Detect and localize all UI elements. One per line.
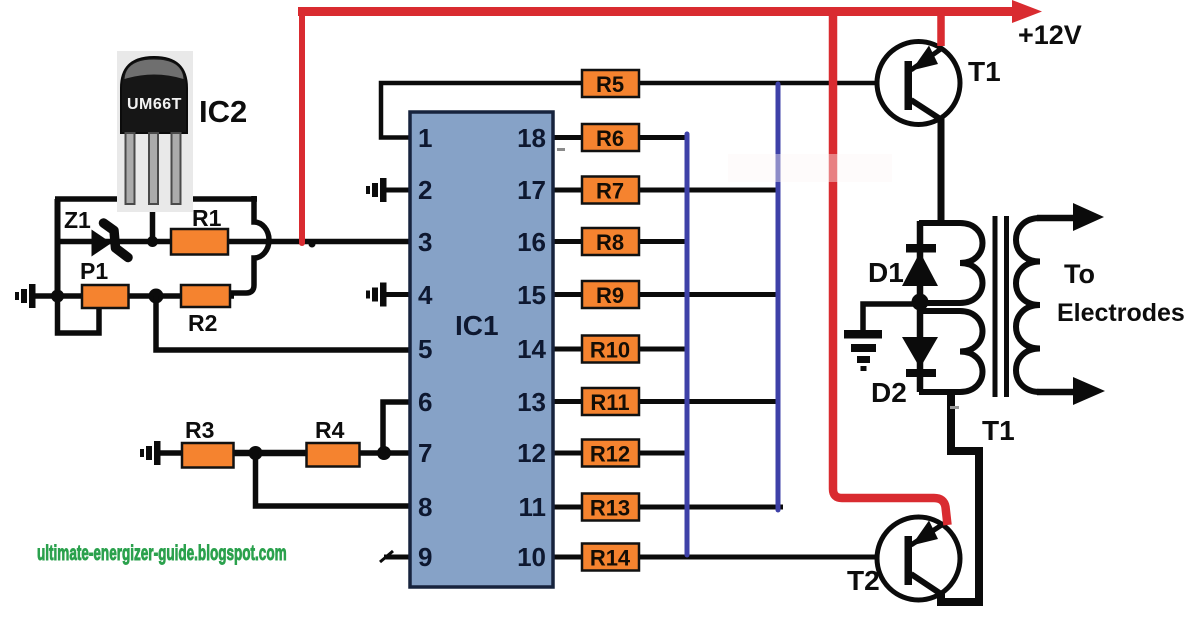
svg-text:10: 10 <box>517 542 546 572</box>
svg-text:14: 14 <box>517 334 546 364</box>
svg-text:R9: R9 <box>596 283 624 308</box>
resistor R14 <box>582 544 639 571</box>
watermark smudge band <box>728 154 892 182</box>
svg-text:Z1: Z1 <box>64 207 91 233</box>
svg-text:12: 12 <box>517 438 546 468</box>
ground at P1 left <box>15 284 36 308</box>
IC U1 body IC1 <box>410 112 553 587</box>
ground at pin 2 <box>366 178 387 202</box>
wire pin 15 stub <box>553 292 584 297</box>
wire P1-R2 row <box>33 293 234 299</box>
arrow to electrodes top <box>1073 203 1104 231</box>
svg-text:6: 6 <box>418 387 432 417</box>
wire right rail with hop over node <box>229 196 269 293</box>
wire secondary bottom lead <box>1037 389 1075 396</box>
node junction dot R3-R4 <box>249 446 263 460</box>
svg-text:13: 13 <box>517 387 546 417</box>
wire R14 to T2 base <box>637 555 906 560</box>
wire R7 to blue bus 2 <box>637 188 778 193</box>
svg-text:11: 11 <box>519 492 547 522</box>
wire node to pin 8 <box>256 453 411 506</box>
transformer T1 primary winding lower <box>919 311 983 392</box>
wire junction to ground <box>863 304 916 330</box>
red wire +12V top rail <box>298 7 1014 16</box>
resistor R11 <box>582 388 639 415</box>
IC2 package body <box>121 57 187 133</box>
wire pin 9 tick <box>380 551 393 562</box>
resistor R5 <box>582 70 639 97</box>
svg-text:15: 15 <box>517 280 546 310</box>
wire P1 wiper loop <box>58 294 100 333</box>
svg-text:R11: R11 <box>590 390 629 415</box>
wire Z1-R1-pin3 node <box>58 239 411 245</box>
svg-text:17: 17 <box>517 175 546 205</box>
transistor T1 <box>877 42 960 125</box>
wire node to pin 6 <box>383 402 410 453</box>
resistor R13 <box>582 494 639 521</box>
svg-text:1: 1 <box>418 123 432 153</box>
watermark grey dash <box>950 406 959 409</box>
svg-text:R6: R6 <box>596 126 624 151</box>
transformer T1 primary winding upper <box>919 223 983 303</box>
wire pin 16 stub <box>553 239 584 244</box>
svg-text:D2: D2 <box>871 377 907 408</box>
svg-text:8: 8 <box>418 492 432 522</box>
wire R8 to blue bus 1 <box>637 239 687 244</box>
wire pin 14 stub <box>553 347 584 352</box>
transistor T2 <box>877 517 960 600</box>
wire R4 to pin 7 <box>357 450 410 456</box>
wire R9 to blue bus 2 <box>637 292 778 297</box>
svg-text:R4: R4 <box>315 417 345 443</box>
wire pin 12 stub <box>553 451 584 456</box>
svg-text:To: To <box>1064 259 1095 289</box>
svg-text:+12V: +12V <box>1018 20 1082 50</box>
svg-text:R3: R3 <box>185 417 214 443</box>
wire pin 18 stub <box>553 135 584 140</box>
wire node to pin 5 <box>156 296 410 350</box>
wire secondary top lead <box>1037 215 1075 222</box>
IC2 package legs <box>126 133 181 204</box>
resistor R1 <box>171 229 228 255</box>
svg-text:UM66T: UM66T <box>127 96 182 113</box>
resistor R7 <box>582 177 639 204</box>
wire pin 1 loop to R5 <box>381 83 584 138</box>
red wire +12V vertical from node <box>299 11 305 243</box>
resistor R9 <box>582 281 639 308</box>
svg-text:3: 3 <box>418 227 432 257</box>
resistor R3 <box>182 443 234 468</box>
resistor R8 <box>582 228 639 255</box>
resistor R2 <box>181 285 230 307</box>
svg-text:5: 5 <box>418 334 432 364</box>
wire R13 to blue bus 2 <box>637 505 783 510</box>
wire R10 to blue bus 1 <box>637 347 687 352</box>
wire T2 collector path to transformer <box>941 394 979 602</box>
node junction dot left rail P1 <box>51 290 64 303</box>
svg-text:T1: T1 <box>982 415 1015 446</box>
svg-text:4: 4 <box>418 280 433 310</box>
wire R3 to R4 <box>232 450 308 457</box>
svg-text:P1: P1 <box>80 258 108 284</box>
wire T1 collector to transformer <box>938 116 945 222</box>
svg-text:R5: R5 <box>596 72 624 97</box>
wire IC2 middle leg to node <box>150 201 156 242</box>
svg-text:D1: D1 <box>868 257 904 288</box>
wire pin 9 stub <box>384 555 410 560</box>
wire R3 row <box>158 450 184 456</box>
ground at pin 4 <box>366 283 387 307</box>
svg-text:R2: R2 <box>188 310 217 336</box>
wire pin 13 stub <box>553 399 584 404</box>
wire D1-D2 string <box>917 221 924 392</box>
watermark grey dash 2 <box>557 148 565 151</box>
red wire to T1 emitter <box>937 11 945 46</box>
svg-text:IC1: IC1 <box>455 310 499 341</box>
svg-text:R13: R13 <box>590 496 630 521</box>
svg-text:R10: R10 <box>590 338 630 363</box>
svg-text:T2: T2 <box>847 565 880 596</box>
svg-text:18: 18 <box>517 123 546 153</box>
node red tap blob <box>309 241 316 248</box>
svg-text:IC2: IC2 <box>199 94 247 129</box>
resistor R10 <box>582 336 639 363</box>
svg-text:R7: R7 <box>596 179 624 204</box>
arrow to electrodes bottom <box>1073 377 1105 405</box>
wire top rail <box>55 196 257 202</box>
svg-text:R1: R1 <box>192 205 222 231</box>
wire pin 17 stub <box>553 188 584 193</box>
svg-text:Electrodes: Electrodes <box>1057 299 1185 327</box>
wire R6 to blue bus 1 <box>637 135 687 140</box>
ground at R3 left <box>140 441 161 465</box>
wire pin 4 ground stub <box>385 292 410 297</box>
ground earth symbol at D1-D2 junction <box>844 330 882 371</box>
svg-text:R14: R14 <box>590 546 631 571</box>
svg-text:9: 9 <box>418 542 432 572</box>
transformer core lines <box>995 216 1007 397</box>
svg-text:T1: T1 <box>968 56 1001 87</box>
node junction dot IC2 leg <box>147 236 158 247</box>
svg-text:16: 16 <box>517 227 546 257</box>
wire R12 to blue bus 1 <box>637 451 687 456</box>
diode D1 <box>902 244 938 286</box>
svg-text:R12: R12 <box>590 442 630 467</box>
svg-text:R8: R8 <box>596 230 624 255</box>
node junction dot P1-R2 <box>149 289 164 304</box>
svg-text:ultimate-energizer-guide.blogs: ultimate-energizer-guide.blogspot.com <box>37 541 287 565</box>
diode D2 <box>902 337 938 377</box>
zener diode Z1 <box>92 223 129 258</box>
svg-text:7: 7 <box>418 438 432 468</box>
node junction dot D1-D2 <box>912 294 929 311</box>
resistor R12 <box>582 440 639 467</box>
red wire to T2 <box>833 11 948 525</box>
transformer T1 secondary winding <box>1016 218 1040 392</box>
resistor R6 <box>582 124 639 151</box>
wire R5 to T1 base <box>637 81 906 86</box>
potentiometer P1 <box>82 285 129 308</box>
blue bus 1 <box>685 134 690 555</box>
wire pin 11 stub <box>553 505 584 510</box>
resistor R4 <box>307 443 360 467</box>
wire R11 to blue bus 2 <box>637 399 778 404</box>
wire pin 2 ground stub <box>385 188 410 193</box>
blue bus 2 <box>776 84 781 510</box>
wire left rail <box>55 199 61 296</box>
svg-text:2: 2 <box>418 175 432 205</box>
wire pin 10 stub <box>553 555 584 560</box>
node junction dot R4-pin7 <box>377 446 391 460</box>
IC2 package photo background <box>117 51 193 212</box>
red arrow +12V <box>1012 0 1042 23</box>
